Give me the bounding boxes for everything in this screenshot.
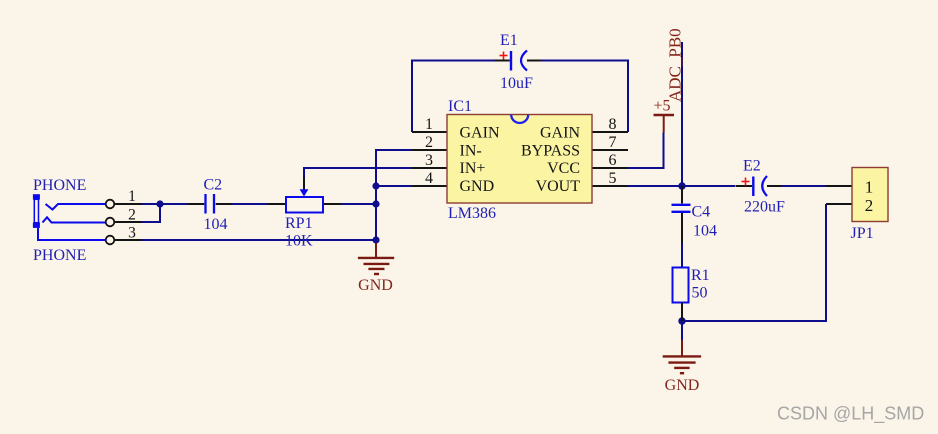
svg-text:50: 50 — [692, 285, 708, 302]
svg-text:1: 1 — [425, 116, 433, 133]
svg-text:220uF: 220uF — [744, 199, 785, 216]
svg-text:RP1: RP1 — [285, 215, 313, 232]
svg-text:5: 5 — [609, 170, 617, 187]
wire pin4 GND — [376, 185, 412, 187]
svg-text:1: 1 — [128, 188, 136, 205]
svg-text:GND: GND — [665, 377, 700, 394]
svg-text:GAIN: GAIN — [460, 125, 500, 142]
connector JP1 — [826, 168, 888, 243]
svg-text:6: 6 — [609, 152, 617, 169]
svg-text:GND: GND — [460, 178, 495, 195]
junction dot sleeve node — [372, 236, 379, 243]
connector J PHONE jack body — [33, 194, 106, 240]
junction dot in- node a — [372, 182, 379, 189]
svg-text:4: 4 — [425, 170, 433, 187]
wire C4 to R1 — [681, 240, 683, 268]
svg-text:E1: E1 — [500, 32, 518, 49]
wire IN+ to wiper — [304, 168, 412, 178]
svg-text:10uF: 10uF — [500, 75, 533, 92]
ground GND2 — [663, 340, 701, 394]
phone pin 1 — [106, 188, 142, 208]
wire ADC_PB0 net — [681, 42, 683, 186]
svg-text:8: 8 — [609, 116, 617, 133]
wire E1 top loop right — [541, 61, 628, 133]
svg-text:2: 2 — [865, 196, 874, 215]
svg-text:PHONE: PHONE — [33, 177, 86, 194]
wire E2 to JP1 — [781, 185, 826, 187]
svg-text:VCC: VCC — [547, 160, 580, 177]
capacitor C2 — [188, 177, 233, 234]
junction dot vout node — [678, 182, 685, 189]
svg-text:C4: C4 — [692, 204, 711, 221]
capacitor E1 — [495, 32, 542, 92]
svg-text:104: 104 — [204, 216, 228, 233]
wire VOUT to E2 — [628, 185, 735, 187]
wire pin6 to +5 — [628, 133, 664, 169]
svg-text:10K: 10K — [285, 233, 313, 250]
capacitor E2 — [736, 158, 786, 216]
svg-text:3: 3 — [425, 152, 433, 169]
wire E1 top loop left — [412, 61, 495, 133]
svg-text:2: 2 — [425, 134, 433, 151]
junction dot phone — [156, 200, 163, 207]
power +5 — [654, 98, 675, 133]
wire C2 to RP1 — [232, 203, 268, 205]
svg-text:PHONE: PHONE — [33, 247, 86, 264]
svg-text:JP1: JP1 — [851, 225, 874, 242]
wire RP1 to gnd node — [341, 203, 376, 205]
phone pin 3 — [106, 225, 142, 245]
resistor R1 — [673, 267, 710, 321]
junction dot r1 bottom node — [678, 317, 685, 324]
svg-text:C2: C2 — [204, 177, 223, 194]
phone pin 2 — [106, 207, 142, 227]
potentiometer RP1 — [268, 178, 342, 250]
svg-text:1: 1 — [865, 177, 874, 196]
wire R1 to ground — [681, 321, 683, 340]
wire JP1 pin2 down to R1 node — [682, 204, 826, 321]
svg-text:7: 7 — [609, 134, 617, 151]
svg-text:ADC_PB0: ADC_PB0 — [666, 28, 685, 102]
svg-text:104: 104 — [693, 223, 717, 240]
svg-text:IC1: IC1 — [448, 98, 472, 115]
svg-text:GND: GND — [358, 277, 393, 294]
capacitor C4 — [672, 186, 718, 243]
svg-text:2: 2 — [128, 207, 136, 224]
ground GND1 — [358, 243, 394, 294]
svg-text:R1: R1 — [691, 267, 710, 284]
wire phone sleeve across — [142, 239, 376, 241]
svg-text:CSDN @LH_SMD: CSDN @LH_SMD — [777, 404, 924, 425]
svg-text:IN-: IN- — [460, 143, 482, 160]
svg-text:VOUT: VOUT — [536, 178, 581, 195]
wire phone ring up — [142, 204, 160, 222]
svg-text:BYPASS: BYPASS — [521, 143, 580, 160]
wire IN- net — [376, 150, 412, 248]
svg-text:GAIN: GAIN — [540, 125, 580, 142]
wire phone tip to C2 — [142, 203, 188, 205]
svg-text:3: 3 — [128, 225, 136, 242]
svg-text:E2: E2 — [743, 158, 761, 175]
svg-text:IN+: IN+ — [460, 160, 486, 177]
junction dot rp1 node — [372, 200, 379, 207]
svg-text:LM386: LM386 — [448, 205, 496, 222]
IC IC1 LM386 — [412, 98, 628, 222]
